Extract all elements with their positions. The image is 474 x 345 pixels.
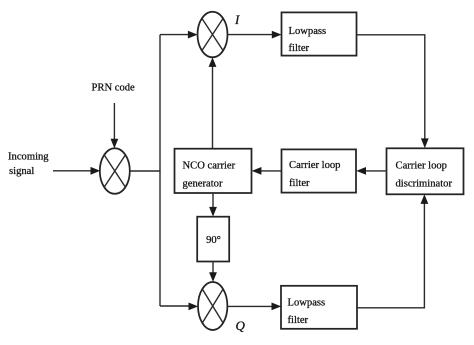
svg-text:Carrier loop: Carrier loop — [289, 160, 340, 171]
svg-text:generator: generator — [183, 179, 223, 190]
svg-text:filter: filter — [288, 315, 309, 326]
svg-text:90°: 90° — [206, 235, 221, 246]
svg-text:PRN code: PRN code — [92, 82, 136, 93]
svg-text:discriminator: discriminator — [396, 179, 453, 190]
svg-text:Incoming: Incoming — [8, 152, 49, 163]
svg-text:Lowpass: Lowpass — [289, 26, 327, 37]
svg-text:NCO carrier: NCO carrier — [183, 161, 236, 172]
svg-text:Carrier loop: Carrier loop — [396, 161, 447, 172]
svg-text:I: I — [234, 12, 240, 27]
svg-text:signal: signal — [9, 166, 34, 177]
svg-text:Lowpass: Lowpass — [288, 298, 326, 309]
svg-text:filter: filter — [289, 43, 310, 54]
svg-text:filter: filter — [289, 178, 310, 189]
svg-text:Q: Q — [236, 318, 246, 333]
